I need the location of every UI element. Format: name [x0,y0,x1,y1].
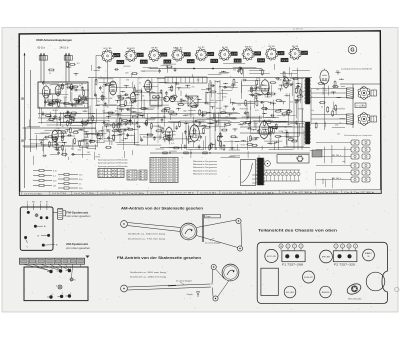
svg-text:EC92: EC92 [259,130,265,132]
svg-text:2n: 2n [79,183,81,185]
tube V11 [52,130,58,141]
tube V7 [261,80,269,94]
chassis tube EABC80 top right [363,249,375,261]
svg-text:0,5M: 0,5M [277,79,282,81]
svg-text:25k: 25k [336,71,339,73]
FM drive cords right [211,270,214,285]
dial lamp pin row [262,169,300,171]
svg-text:U 1 W 2: U 1 W 2 [99,173,123,175]
tube V6 (output) [190,125,200,141]
AM drive pulley left [121,221,128,228]
svg-text:a 27: a 27 [128,174,136,176]
right column parts [331,91,336,93]
svg-text:EC92: EC92 [241,144,246,146]
svg-text:7 0,35: 7 0,35 [356,106,365,108]
svg-text:0,5M: 0,5M [279,131,284,133]
pin label box lower-left of socket 7 [234,59,241,63]
svg-text:G: G [350,48,354,54]
filter F2 box [333,251,357,262]
svg-text:25k: 25k [278,121,281,123]
long verticals [209,80,211,150]
svg-text:5p: 5p [286,94,288,96]
tube V3 [145,80,152,92]
AM drive cords [127,223,180,228]
svg-text:Ce 4 Tm 27 38 b: Ce 4 Tm 27 38 b [74,193,94,195]
svg-text:240 Ω b: 240 Ω b [60,47,69,50]
filter F1 box [282,251,305,262]
svg-text:500: 500 [309,97,312,99]
svg-text:U 1 W 2: U 1 W 2 [99,176,123,178]
tube socket ECC 85 top view [102,51,112,61]
UKW box parts [69,87,74,89]
tube socket EF 89 top view [290,49,300,59]
svg-text:500: 500 [171,139,174,141]
svg-text:Ein Graetz: Ein Graetz [349,297,362,300]
svg-text:3k: 3k [139,83,141,85]
svg-text:EF 89: EF 89 [151,48,158,50]
svg-text:Ce 4 Tm 27 38 b: Ce 4 Tm 27 38 b [200,193,216,195]
svg-text:Drahtverbindungen am Lautsprec: Drahtverbindungen am Lautsprecher [344,134,372,137]
oscillator coil pair [164,96,170,102]
AM strip leader wires [24,264,50,270]
antenna input wires group 1 [40,53,42,82]
pin label box right of socket 8 [278,51,284,55]
AM trimmer cog 2 [58,285,62,289]
svg-text:a 27: a 27 [128,176,136,178]
svg-text:47p: 47p [311,110,314,112]
svg-text:EC92: EC92 [222,97,227,99]
chassis tube ECC85 [265,249,278,262]
svg-text:1 b 4: 1 b 4 [258,60,264,62]
svg-text:EC 92: EC 92 [198,47,205,49]
svg-text:EF-89: EF-89 [322,257,330,259]
FM coil set box [20,207,53,250]
wire bus y147 [160,147,310,149]
svg-text:100: 100 [180,99,183,101]
chassis circular cutout [366,272,385,291]
tube V4 [130,93,136,103]
wire left bus vertical [24,53,26,188]
svg-text:60 Ω a: 60 Ω a [38,47,46,50]
svg-text:2x umschlagen: 2x umschlagen [205,243,221,245]
svg-text:10n: 10n [173,95,176,97]
UKW tuner box [38,82,88,108]
svg-text:EF 89: EF 89 [292,46,299,48]
svg-text:30p: 30p [316,89,319,91]
turnbuckle marks [168,284,176,286]
tube socket EABC 80 top view [173,50,183,60]
coupling coil L1 [39,56,47,61]
svg-text:EZ 80: EZ 80 [269,46,276,48]
svg-text:EABC: EABC [365,252,373,255]
svg-text:Ce 4 Tm 27 38 b: Ce 4 Tm 27 38 b [222,192,242,194]
svg-text:AM-Spulensatz: AM-Spulensatz [66,242,89,246]
pin label box right of socket 3 [161,53,167,57]
svg-text:Widerstände in Ohm gemessen: Widerstände in Ohm gemessen [193,172,217,175]
chassis tube ECH81 [303,271,315,283]
brand logo oval with star [346,282,363,296]
svg-text:a 27: a 27 [114,55,119,57]
svg-text:80: 80 [368,256,370,258]
svg-text:b 4: b 4 [140,171,146,173]
svg-text:a 27: a 27 [185,54,190,56]
AM drive cords right [197,220,237,228]
svg-text:10: 10 [348,246,350,248]
pin label box right of socket 5 [208,52,214,56]
svg-text:70: 70 [130,135,132,137]
svg-text:10n: 10n [79,174,82,176]
chassis tube EF89 [320,250,333,263]
svg-text:Lautsprecheranschlußbrett: Lautsprecheranschlußbrett [341,68,373,71]
svg-text:5: 5 [342,246,343,248]
tube V2 [109,81,117,95]
tube inside UKW box [42,86,49,98]
chassis tube EL84 [284,286,296,298]
svg-text:24 RB 613: 24 RB 613 [293,28,304,30]
svg-text:Zeiger: Zeiger [187,293,193,296]
output transformer winding T1 [306,78,310,104]
svg-text:9: 9 [287,246,288,248]
svg-text:10n: 10n [186,139,189,141]
svg-text:2n: 2n [50,84,52,86]
svg-text:1M: 1M [169,114,172,116]
svg-text:3k: 3k [81,84,83,86]
svg-text:50: 50 [283,116,285,118]
svg-text:50: 50 [49,73,51,75]
svg-text:25k: 25k [335,124,338,126]
left bottom parts [55,137,57,141]
svg-text:a 27: a 27 [161,54,166,56]
AM coil box [24,267,88,301]
svg-text:500: 500 [102,110,105,112]
svg-text:b 4: b 4 [140,174,146,176]
svg-text:1M: 1M [87,152,90,154]
svg-text:SO: SO [32,202,35,204]
svg-text:Ce 4 Tm 27 38 b: Ce 4 Tm 27 38 b [344,192,374,194]
svg-text:1 b 4: 1 b 4 [117,62,123,64]
svg-text:2n: 2n [57,98,59,100]
svg-text:Ce 4 Tm 27 38 b: Ce 4 Tm 27 38 b [282,192,312,194]
FM box side tab [58,208,63,219]
components on bus y153 [163,152,167,154]
svg-text:UKW-Antennenkupplungen: UKW-Antennenkupplungen [36,38,72,42]
svg-text:10n: 10n [207,103,210,105]
svg-text:Seiltrieb ca. 600 mm lang: Seiltrieb ca. 600 mm lang [128,232,166,235]
main schematic border frame [19,31,381,195]
wire horizontal bus y146 [23,145,98,147]
svg-text:25k: 25k [109,98,112,100]
svg-text:1n: 1n [223,110,225,112]
speaker wires [311,88,347,90]
small table A [127,170,137,180]
tube socket EL 84 top view [220,49,230,59]
svg-text:1 b 4: 1 b 4 [188,61,194,63]
small table B [139,170,147,180]
svg-text:10: 10 [280,246,282,248]
svg-text:Spannungen gemessen mit Röhren: Spannungen gemessen mit Röhrenvoltm. [98,159,128,162]
capacitors on left bus [21,97,24,99]
svg-text:Drahtseil ca. 1030 mm lang: Drahtseil ca. 1030 mm lang [130,275,167,278]
svg-text:25k: 25k [225,117,228,119]
svg-text:BD 102 a: BD 102 a [332,178,342,180]
wire top bus y77 [88,77,312,79]
svg-text:ECH 81: ECH 81 [127,48,135,50]
box with X [188,96,198,106]
tube socket ECH 81 top view [126,51,136,61]
svg-text:2n: 2n [115,111,117,113]
svg-text:Ce 4 Tm 27 38 b: Ce 4 Tm 27 38 b [150,193,164,195]
svg-text:Spannungen gemessen mit Röhren: Spannungen gemessen mit Röhrenvoltm. [98,165,128,168]
svg-text:7: 7 [335,246,336,248]
svg-text:EC92: EC92 [254,123,259,125]
pin label box right of socket 7 [255,52,261,56]
svg-text:1n: 1n [126,103,128,105]
IF transformer box [150,93,162,106]
svg-text:a 27: a 27 [208,54,213,56]
svg-text:30p: 30p [163,116,166,118]
svg-text:220: 220 [139,78,142,80]
FM drive pulley top [211,264,216,269]
pin label box right of socket 6 [231,52,237,56]
svg-text:b 4: b 4 [140,176,146,178]
svg-text:von unten gesehen: von unten gesehen [66,215,91,218]
svg-text:0,5M: 0,5M [267,120,271,122]
svg-text:5p: 5p [292,84,294,86]
svg-text:1n: 1n [269,138,271,140]
svg-text:1M: 1M [126,79,129,81]
voltage table rows group 1 [33,170,39,172]
svg-text:Widerstände in Ohm gemessen: Widerstände in Ohm gemessen [193,169,217,172]
magic eye assembly box [277,155,309,164]
AM coil dots top row [49,270,52,273]
svg-text:47p: 47p [197,80,200,82]
svg-text:FM-Antrieb von der Skalenseite: FM-Antrieb von der Skalenseite gesehen [117,256,201,260]
pin label box lower-left of socket 6 [211,59,218,63]
tube V5 [165,128,173,141]
svg-text:25k: 25k [56,128,59,130]
circuit fill wiring [163,63,176,65]
svg-text:a 27: a 27 [302,53,307,55]
big parts list table [150,158,178,183]
AM coil dots bottom row [49,295,52,298]
dial lamp rail [165,77,207,83]
svg-text:3k: 3k [142,96,144,98]
svg-text:U 1 W 2: U 1 W 2 [99,170,123,172]
svg-text:a 27: a 27 [232,54,237,56]
AM drive pulley top right [236,218,241,223]
antenna area small parts [70,63,74,65]
tube V10 magic eye [320,70,329,84]
cable housing box [241,160,256,186]
pin label box right of socket 9 [301,51,307,55]
power transformer bar [258,158,264,185]
pin label box lower-left of socket 8 [257,59,264,63]
svg-text:50: 50 [85,137,87,139]
wire horizontal bus y128 [23,127,97,129]
svg-text:1 b 4: 1 b 4 [141,62,147,64]
svg-text:8,2: 8,2 [102,86,105,88]
svg-text:FM-Spulensatz: FM-Spulensatz [66,210,89,214]
svg-text:a 27: a 27 [128,179,136,181]
svg-text:500: 500 [256,87,259,89]
svg-text:ECC 85: ECC 85 [104,48,112,50]
wire buses [240,121,305,123]
svg-text:EABC 80: EABC 80 [173,46,183,49]
wires to strips [316,142,351,144]
svg-text:25k: 25k [361,87,364,89]
pin label box right of socket 2 [137,53,143,57]
svg-text:1n: 1n [334,109,336,111]
svg-text:Spannungen gemessen mit Röhren: Spannungen gemessen mit Röhrenvoltm. [98,162,128,165]
svg-text:1 b 4: 1 b 4 [211,61,217,63]
pin label box lower-left of socket 2 [117,60,124,64]
chassis outline [257,242,387,303]
svg-text:ECH-81: ECH-81 [304,277,313,279]
FM drive pulley bottom [213,296,218,301]
svg-text:70: 70 [339,123,341,125]
tube V9 output EL84 [259,122,269,139]
wire bus y153 [150,152,310,154]
svg-text:AM-Antrieb von der Skalenseite: AM-Antrieb von der Skalenseite gesehen [121,206,203,210]
tube V8 [283,78,289,88]
svg-text:BD 101 a: BD 101 a [332,155,342,157]
svg-text:ECC-85: ECC-85 [267,256,276,258]
svg-text:von unten gesehen: von unten gesehen [66,247,91,250]
FM drive cords long [127,284,210,287]
svg-text:5 0,35: 5 0,35 [165,181,176,183]
svg-text:3k: 3k [285,127,287,129]
tube socket EF 89 top view [149,50,159,60]
svg-text:10n: 10n [121,140,124,142]
svg-text:4,7k: 4,7k [255,110,258,112]
F2 pin number circles [334,244,338,248]
svg-text:EM 80: EM 80 [245,47,252,49]
svg-text:27 6 143: 27 6 143 [151,181,163,183]
resistor marks right of housing [252,174,258,176]
svg-text:220: 220 [129,102,132,104]
svg-text:Widerstände in Ohm gemessen: Widerstände in Ohm gemessen [193,163,217,166]
svg-text:EC92: EC92 [53,110,59,112]
svg-text:1 b 4: 1 b 4 [282,60,288,62]
svg-text:0,5M: 0,5M [232,119,236,121]
svg-text:25k: 25k [287,124,290,126]
F1 pin number circles [279,244,283,248]
page edge mark [395,287,399,291]
svg-text:Ce 4 Tm 27 38 b: Ce 4 Tm 27 38 b [100,193,116,195]
svg-text:EL 84: EL 84 [222,47,228,49]
coupling coil L2 [64,56,72,61]
svg-text:EM-80: EM-80 [322,292,330,294]
svg-text:125: 125 [97,101,100,103]
svg-text:4,7k: 4,7k [171,143,174,145]
svg-text:Ce 4 Tm 27 38 b: Ce 4 Tm 27 38 b [52,193,66,195]
svg-text:EC92: EC92 [56,107,61,109]
svg-text:Teilansicht des Chassis von ob: Teilansicht des Chassis von oben [258,229,337,233]
AM trimmer cog 1 [70,278,73,281]
AM drive pulley bottom right [237,246,242,251]
svg-text:1M: 1M [259,70,262,72]
speaker SP1 [359,88,370,99]
AM pointer bracket [202,214,204,242]
AM drive drum [180,223,197,240]
svg-text:5p: 5p [362,104,364,106]
mid-left parts [98,134,102,136]
svg-text:Ce 4 Tm 27 38 b: Ce 4 Tm 27 38 b [170,193,194,195]
svg-text:25k: 25k [192,87,195,89]
svg-text:50: 50 [99,139,101,141]
wire top bus y68 [150,68,262,70]
svg-text:1M: 1M [53,185,56,187]
logo G circle [348,45,357,54]
svg-text:EC92: EC92 [238,70,243,72]
svg-text:F2 7257–320: F2 7257–320 [334,264,356,266]
tube socket EC 92 top view [196,50,206,60]
svg-text:100: 100 [285,130,288,132]
socket near lamp row [265,161,271,167]
svg-text:Widerstände in Ohm gemessen: Widerstände in Ohm gemessen [193,166,217,169]
svg-text:b 4: b 4 [140,179,146,181]
svg-text:0,1: 0,1 [241,125,244,127]
switch table [98,169,124,178]
svg-text:Zeiger: Zeiger [206,215,212,218]
chassis inner rectangle [261,268,278,295]
svg-text:1 b 4: 1 b 4 [235,60,241,62]
svg-text:3: 3 [355,246,356,248]
AM terminal strip [20,258,85,264]
svg-text:1M: 1M [123,124,126,126]
svg-text:Ce 4 Tm 27 38 b: Ce 4 Tm 27 38 b [24,193,42,195]
vertical feeders [91,78,93,143]
tube socket EM 80 top view [243,49,253,59]
pin label box right of socket 4 [184,53,190,57]
pin label box lower-left of socket 9 [281,58,288,62]
svg-text:30p: 30p [120,108,123,110]
svg-text:10n: 10n [215,102,218,104]
svg-text:1 b 4: 1 b 4 [164,61,170,63]
FM drive pulley left [121,285,128,292]
FM coil dots [27,211,30,214]
svg-text:10n: 10n [100,77,103,79]
svg-text:a 27: a 27 [255,53,260,55]
pin label box lower-left of socket 5 [187,59,194,63]
svg-text:100: 100 [233,70,236,72]
pin label box lower-left of socket 3 [140,60,147,64]
speaker section bus [340,83,380,85]
svg-text:F1 7257–268: F1 7257–268 [282,264,304,266]
svg-text:Widerstände in Ohm gemessen: Widerstände in Ohm gemessen [193,160,217,163]
svg-text:50: 50 [321,107,323,109]
section parts [271,102,276,104]
svg-text:3k: 3k [219,86,221,88]
svg-text:Ce 4 Tm 27 38 b: Ce 4 Tm 27 38 b [122,193,144,195]
speaker SP2 [359,114,370,125]
svg-text:25k: 25k [324,90,327,92]
svg-text:Seiltrieb ca. 300 mm lang: Seiltrieb ca. 300 mm lang [130,271,167,274]
pin label box right of socket 1 [114,53,120,57]
svg-text:4: 4 [300,246,301,248]
parts below UKW box [70,117,74,119]
svg-text:Ce 4 Tm 27 38 b: Ce 4 Tm 27 38 b [248,192,274,194]
tube socket V1 lead-down wires [107,61,109,82]
svg-text:a 27: a 27 [138,55,143,57]
svg-text:Drahtseil ca. 770 mm lang: Drahtseil ca. 770 mm lang [128,237,166,240]
svg-text:500: 500 [297,86,300,88]
voltage table rows group 2 [58,174,64,176]
svg-text:25k: 25k [238,105,241,107]
svg-text:10n: 10n [290,102,293,104]
svg-text:1n: 1n [62,126,64,128]
svg-text:a 27: a 27 [128,171,136,173]
